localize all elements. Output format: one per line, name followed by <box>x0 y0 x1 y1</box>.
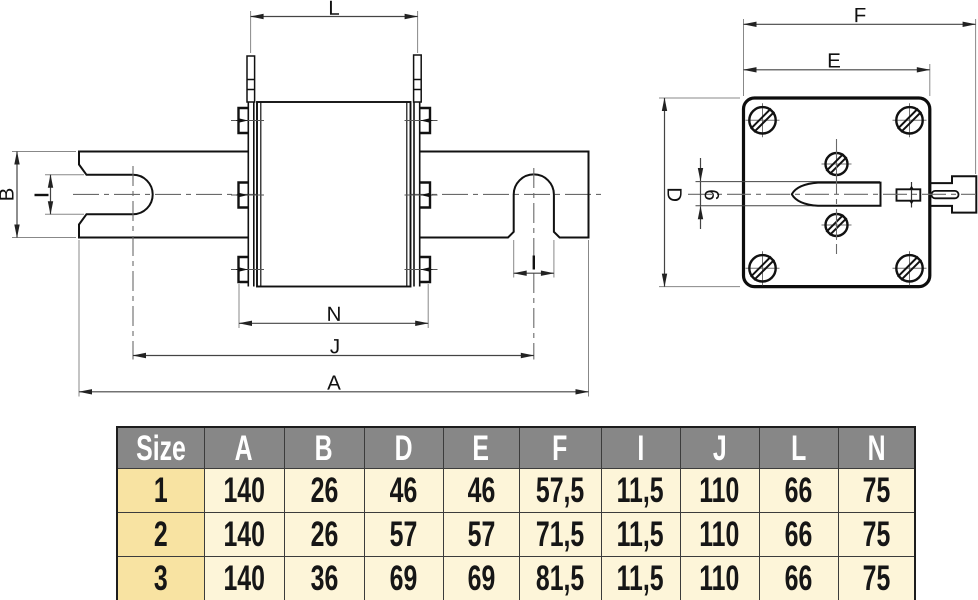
vertical centerline right slot <box>533 168 535 360</box>
front plate square body <box>744 98 930 287</box>
dimension B <box>16 152 18 238</box>
dimension J <box>133 355 534 357</box>
dimension I (left slot) extension lines <box>45 175 84 214</box>
dimension D extension lines <box>659 98 740 287</box>
dimension E <box>744 69 930 71</box>
dimension A <box>79 391 589 393</box>
contact clip right top <box>420 108 430 133</box>
contact clip left bottom <box>239 257 249 282</box>
rear blade slot <box>932 191 959 198</box>
blade tip (front view bullet) <box>792 183 881 206</box>
left end plate <box>248 102 254 287</box>
right end plate <box>414 102 420 287</box>
rear blade tab (side lug) <box>930 176 977 212</box>
dimension B extension lines <box>12 152 76 238</box>
dimension E extension line right <box>929 64 931 96</box>
corner screw top-left <box>746 103 780 137</box>
dimension I (right slot) extension lines <box>514 240 554 278</box>
blade contact right (slotted) <box>420 152 589 238</box>
middle screw lower <box>822 210 852 240</box>
dimension L extension lines <box>251 11 418 53</box>
dimension table <box>116 426 916 600</box>
contact clip right middle <box>420 183 430 208</box>
striker pin (front view) <box>897 182 921 208</box>
contact clip left middle <box>239 183 249 208</box>
centerline of fuse axis (side view) <box>73 193 603 195</box>
blade thickness reference lines <box>696 182 881 206</box>
dimension F extension lines <box>744 19 976 174</box>
grip lug tab left (top) <box>247 56 255 102</box>
blade contact left (slotted) <box>79 152 249 238</box>
corner screw bottom-right <box>893 251 927 285</box>
centerline horizontal (front view) <box>688 193 976 195</box>
vertical centerline left slot <box>132 166 134 360</box>
centerline vertical (front view) <box>836 139 838 254</box>
corner screw top-right <box>893 103 927 137</box>
fuse ceramic body (side view) <box>257 102 411 287</box>
dimension I (left slot) <box>50 175 52 214</box>
body edge double lines <box>261 102 407 287</box>
contact clip right bottom <box>420 257 430 282</box>
contact clip left top <box>239 108 249 133</box>
dimension N <box>239 322 428 324</box>
dimension D <box>664 98 666 287</box>
dimension F <box>744 23 976 25</box>
dimension N extension lines <box>239 284 428 328</box>
dimension L <box>251 16 418 18</box>
dimension A extension lines <box>79 240 589 397</box>
corner screw bottom-left <box>746 251 780 285</box>
grip lug tab right (top) <box>414 55 422 102</box>
middle screw upper <box>822 149 852 179</box>
dimension 6 (blade thickness) <box>700 158 702 181</box>
dimension I (right slot) <box>514 272 554 274</box>
